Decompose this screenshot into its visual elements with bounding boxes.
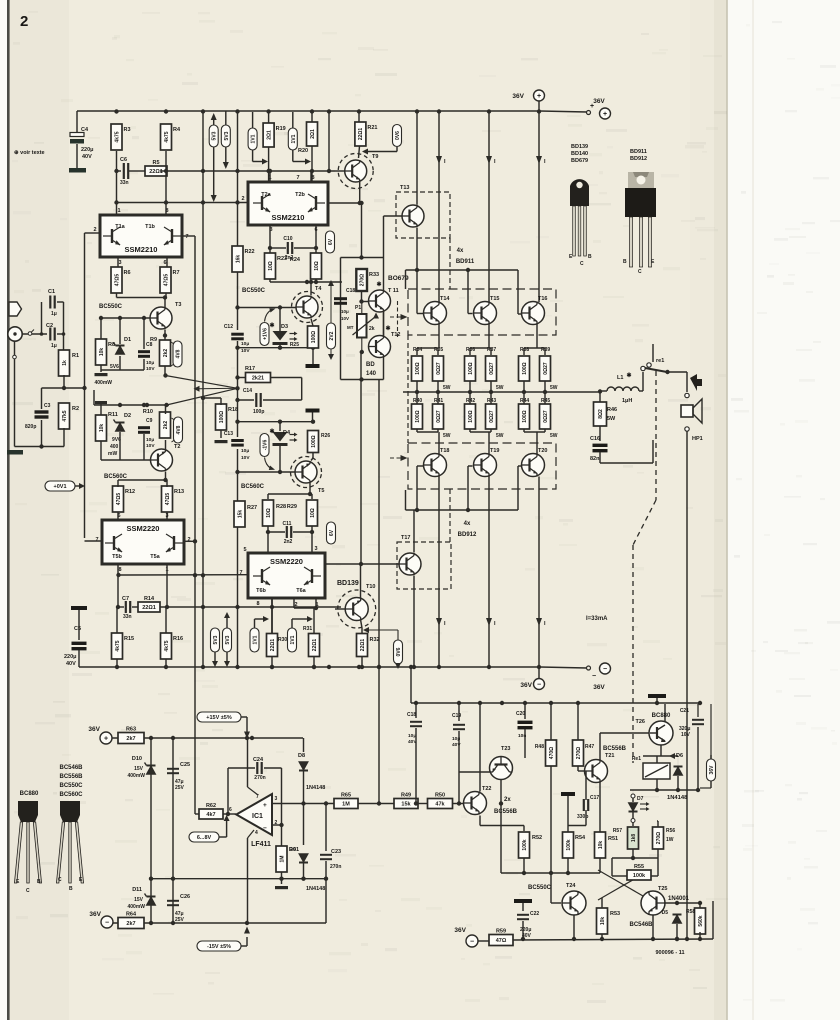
svg-text:R20: R20 xyxy=(298,148,308,154)
svg-text:IC1: IC1 xyxy=(252,813,263,820)
svg-text:4: 4 xyxy=(255,830,258,836)
svg-text:R54: R54 xyxy=(575,835,586,841)
svg-text:−: − xyxy=(592,673,596,680)
svg-text:R11: R11 xyxy=(108,412,118,418)
svg-text:R33: R33 xyxy=(369,272,379,278)
svg-text:4V8: 4V8 xyxy=(176,425,182,434)
svg-text:R53: R53 xyxy=(610,911,620,917)
svg-text:BC546B: BC546B xyxy=(59,765,83,771)
svg-text:MT: MT xyxy=(347,325,354,330)
svg-text:36V: 36V xyxy=(593,98,605,105)
svg-text:BD139: BD139 xyxy=(571,144,588,150)
svg-text:3: 3 xyxy=(275,796,278,802)
svg-text:6V: 6V xyxy=(328,238,334,245)
svg-text:R40: R40 xyxy=(413,398,422,404)
svg-text:1V1: 1V1 xyxy=(251,134,257,143)
svg-text:R21: R21 xyxy=(367,125,377,131)
svg-text:R46: R46 xyxy=(607,407,617,413)
svg-text:T25: T25 xyxy=(658,886,667,892)
svg-text:6V: 6V xyxy=(329,529,335,536)
svg-text:R45: R45 xyxy=(541,398,550,404)
svg-text:1V1: 1V1 xyxy=(290,635,296,644)
svg-text:10k: 10k xyxy=(598,841,604,850)
svg-text:5W: 5W xyxy=(550,433,558,439)
svg-text:R44: R44 xyxy=(520,398,529,404)
svg-text:100Ω: 100Ω xyxy=(415,362,421,374)
svg-text:100Ω: 100Ω xyxy=(219,411,225,423)
svg-text:R64: R64 xyxy=(126,912,137,918)
svg-text:1N4148: 1N4148 xyxy=(667,795,688,801)
svg-text:+: + xyxy=(537,93,541,100)
svg-text:C10: C10 xyxy=(283,236,292,242)
svg-text:C22: C22 xyxy=(530,911,539,917)
svg-text:2Ω1: 2Ω1 xyxy=(266,130,272,140)
svg-text:+: + xyxy=(603,111,607,118)
svg-text:2: 2 xyxy=(187,537,190,543)
svg-text:270n: 270n xyxy=(254,775,265,781)
svg-text:C24: C24 xyxy=(253,757,264,763)
svg-text:5W: 5W xyxy=(550,385,558,391)
svg-text:1V1: 1V1 xyxy=(291,134,297,143)
svg-text:47Ω5: 47Ω5 xyxy=(116,493,122,506)
svg-text:10V: 10V xyxy=(146,366,155,372)
svg-text:D8: D8 xyxy=(298,753,305,759)
svg-text:R63: R63 xyxy=(126,727,136,733)
svg-text:10μ: 10μ xyxy=(341,309,349,314)
svg-text:36V: 36V xyxy=(88,726,100,733)
svg-text:R25: R25 xyxy=(290,342,299,348)
svg-text:10V: 10V xyxy=(681,732,691,738)
svg-text:0V6: 0V6 xyxy=(396,647,402,656)
svg-text:C17: C17 xyxy=(590,795,599,801)
svg-text:R6: R6 xyxy=(124,270,131,276)
svg-text:HP1: HP1 xyxy=(692,436,703,442)
svg-text:1W: 1W xyxy=(666,837,674,843)
svg-text:7: 7 xyxy=(296,175,299,181)
svg-text:270Ω: 270Ω xyxy=(576,747,582,759)
svg-text:R9: R9 xyxy=(150,337,157,343)
svg-text:R49: R49 xyxy=(401,793,411,799)
svg-text:1μ: 1μ xyxy=(51,311,57,317)
svg-text:B: B xyxy=(623,259,627,265)
svg-text:R3: R3 xyxy=(124,127,131,133)
svg-text:C12: C12 xyxy=(224,324,233,330)
svg-text:36V: 36V xyxy=(512,93,524,100)
svg-text:+: + xyxy=(263,802,267,809)
svg-text:L1: L1 xyxy=(617,375,623,381)
svg-text:900096 - 11: 900096 - 11 xyxy=(655,950,684,956)
svg-text:40V: 40V xyxy=(82,154,92,160)
svg-text:+: + xyxy=(104,735,108,742)
svg-text:R52: R52 xyxy=(532,835,542,841)
svg-text:BD679: BD679 xyxy=(571,158,588,164)
svg-text:T24: T24 xyxy=(566,883,576,889)
svg-text:R41: R41 xyxy=(434,398,443,404)
svg-text:4x: 4x xyxy=(457,248,464,254)
svg-text:T19: T19 xyxy=(490,448,499,454)
svg-text:2: 2 xyxy=(93,227,96,233)
svg-text:3: 3 xyxy=(314,546,317,552)
svg-text:T2a: T2a xyxy=(261,192,271,198)
svg-text:10V: 10V xyxy=(241,455,250,461)
svg-text:R56: R56 xyxy=(666,828,675,834)
svg-text:400mW: 400mW xyxy=(94,380,112,386)
svg-text:6: 6 xyxy=(163,260,166,266)
svg-text:R30: R30 xyxy=(278,637,287,643)
svg-text:BC880: BC880 xyxy=(20,791,39,797)
svg-text:6: 6 xyxy=(117,513,120,519)
svg-text:T22: T22 xyxy=(482,786,491,792)
svg-text:140: 140 xyxy=(366,371,377,377)
svg-text:Re1: Re1 xyxy=(632,756,641,762)
svg-text:mW: mW xyxy=(108,451,117,457)
svg-text:R4: R4 xyxy=(173,127,181,133)
svg-text:4k75: 4k75 xyxy=(164,640,170,651)
svg-text:100Ω: 100Ω xyxy=(522,362,528,374)
svg-text:BC550C: BC550C xyxy=(99,304,123,310)
svg-text:10V: 10V xyxy=(341,316,349,321)
svg-text:100k: 100k xyxy=(633,873,646,879)
svg-text:22Ω1: 22Ω1 xyxy=(270,639,276,652)
svg-text:0Ω27: 0Ω27 xyxy=(543,410,549,423)
svg-text:BD139: BD139 xyxy=(337,580,359,587)
svg-text:B: B xyxy=(588,254,592,260)
svg-text:D3: D3 xyxy=(281,324,288,330)
svg-text:5W: 5W xyxy=(607,416,616,422)
svg-text:220μ: 220μ xyxy=(64,654,77,660)
svg-text:R14: R14 xyxy=(144,596,155,602)
svg-text:R15: R15 xyxy=(124,636,134,642)
svg-text:47Ω5: 47Ω5 xyxy=(165,493,171,506)
svg-text:T2b: T2b xyxy=(295,192,305,198)
svg-text:1M: 1M xyxy=(342,802,350,808)
svg-text:4k75: 4k75 xyxy=(114,131,120,142)
svg-text:C21: C21 xyxy=(680,708,689,714)
svg-text:10μ: 10μ xyxy=(241,448,249,454)
svg-text:C23: C23 xyxy=(331,849,341,855)
svg-text:T6b: T6b xyxy=(256,588,266,594)
svg-text:R26: R26 xyxy=(321,433,330,439)
svg-text:10μ: 10μ xyxy=(241,341,249,347)
svg-text:C16: C16 xyxy=(590,436,600,442)
svg-text:D7: D7 xyxy=(637,796,644,802)
svg-text:BD: BD xyxy=(366,362,375,368)
svg-text:T14: T14 xyxy=(440,296,450,302)
svg-text:R59: R59 xyxy=(496,929,506,935)
svg-text:47k: 47k xyxy=(435,802,445,808)
svg-text:47k5: 47k5 xyxy=(62,410,68,421)
svg-text:C20: C20 xyxy=(516,711,525,717)
svg-text:✱: ✱ xyxy=(385,325,390,332)
svg-text:2k21: 2k21 xyxy=(252,376,264,382)
svg-text:8: 8 xyxy=(118,567,121,573)
svg-text:6...8V: 6...8V xyxy=(197,835,212,841)
svg-text:D6: D6 xyxy=(676,753,683,759)
svg-text:100p: 100p xyxy=(253,409,264,415)
svg-text:0Ω27: 0Ω27 xyxy=(489,362,495,375)
svg-text:0Ω27: 0Ω27 xyxy=(543,362,549,375)
svg-text:R61: R61 xyxy=(289,847,299,853)
svg-text:560k: 560k xyxy=(698,915,704,926)
svg-text:T5a: T5a xyxy=(150,554,160,560)
svg-text:BD911: BD911 xyxy=(630,149,647,155)
svg-text:I=33mA: I=33mA xyxy=(586,616,608,622)
svg-text:SSM2210: SSM2210 xyxy=(272,213,305,222)
svg-text:40V: 40V xyxy=(66,661,76,667)
svg-text:5V3: 5V3 xyxy=(213,635,219,644)
svg-text:T15: T15 xyxy=(490,296,499,302)
svg-text:22Ω1: 22Ω1 xyxy=(358,128,364,141)
svg-text:36V: 36V xyxy=(454,927,466,934)
svg-text:3: 3 xyxy=(165,513,168,519)
svg-text:T12: T12 xyxy=(391,332,400,338)
svg-text:−: − xyxy=(537,681,541,688)
svg-text:8: 8 xyxy=(256,601,259,607)
svg-text:T21: T21 xyxy=(605,753,614,759)
svg-text:2k7: 2k7 xyxy=(126,921,135,927)
svg-text:R28: R28 xyxy=(276,504,286,510)
svg-text:4k75: 4k75 xyxy=(164,131,170,142)
svg-text:R24: R24 xyxy=(290,257,301,263)
svg-text:3: 3 xyxy=(118,260,121,266)
svg-text:-15V ±5%: -15V ±5% xyxy=(207,944,231,950)
svg-text:220μ: 220μ xyxy=(81,147,94,153)
svg-text:C3: C3 xyxy=(44,403,51,409)
svg-text:1M: 1M xyxy=(279,856,285,863)
svg-text:100Ω: 100Ω xyxy=(311,435,317,447)
svg-text:R2: R2 xyxy=(72,406,79,412)
svg-text:R31: R31 xyxy=(303,626,312,632)
svg-text:C6: C6 xyxy=(120,157,127,163)
svg-text:R27: R27 xyxy=(247,505,257,511)
svg-text:2k2: 2k2 xyxy=(163,421,169,430)
svg-text:LF411: LF411 xyxy=(251,841,271,848)
svg-text:1N4148: 1N4148 xyxy=(306,785,325,791)
svg-text:5V3: 5V3 xyxy=(212,131,218,140)
svg-text:R51: R51 xyxy=(608,836,618,842)
svg-text:1k8: 1k8 xyxy=(631,834,637,843)
svg-text:BD140: BD140 xyxy=(571,151,588,157)
svg-text:1N4148: 1N4148 xyxy=(306,886,325,892)
svg-text:R43: R43 xyxy=(487,398,496,404)
svg-text:10Ω: 10Ω xyxy=(266,508,272,518)
svg-text:T20: T20 xyxy=(538,448,547,454)
svg-text:BC556B: BC556B xyxy=(603,746,627,752)
svg-text:4k7: 4k7 xyxy=(206,812,215,818)
svg-text:BC560C: BC560C xyxy=(59,792,83,798)
svg-text:C13: C13 xyxy=(224,431,233,437)
svg-text:R17: R17 xyxy=(245,366,255,372)
svg-text:D10: D10 xyxy=(132,756,142,762)
svg-text:5V3: 5V3 xyxy=(224,131,230,140)
svg-text:7: 7 xyxy=(95,537,98,543)
svg-text:T1b: T1b xyxy=(145,224,155,230)
svg-text:D11: D11 xyxy=(132,887,142,893)
svg-text:15V: 15V xyxy=(134,766,144,772)
svg-text:✱: ✱ xyxy=(269,322,274,329)
svg-text:0Ω27: 0Ω27 xyxy=(489,410,495,423)
svg-text:15k: 15k xyxy=(237,510,243,519)
svg-text:C11: C11 xyxy=(283,521,292,527)
svg-text:C: C xyxy=(638,269,642,275)
svg-text:270Ω: 270Ω xyxy=(656,832,662,844)
svg-text:33n: 33n xyxy=(120,180,129,186)
svg-text:1μH: 1μH xyxy=(622,398,632,404)
svg-text:T9: T9 xyxy=(372,154,378,160)
svg-text:2Ω1: 2Ω1 xyxy=(310,129,316,139)
svg-text:10Ω: 10Ω xyxy=(314,261,320,271)
svg-text:C18: C18 xyxy=(407,712,416,718)
svg-text:0Ω27: 0Ω27 xyxy=(436,410,442,423)
svg-text:100Ω: 100Ω xyxy=(311,331,317,343)
svg-text:R47: R47 xyxy=(585,744,594,750)
svg-text:C1: C1 xyxy=(48,289,55,295)
svg-text:R48: R48 xyxy=(535,744,544,750)
svg-text:10μ: 10μ xyxy=(146,437,154,443)
svg-text:R50: R50 xyxy=(435,793,445,799)
svg-text:R57: R57 xyxy=(613,828,622,834)
svg-text:D1: D1 xyxy=(124,337,131,343)
svg-text:4V8: 4V8 xyxy=(176,349,182,358)
svg-text:C: C xyxy=(26,888,30,894)
svg-text:5W: 5W xyxy=(496,433,504,439)
svg-text:T4: T4 xyxy=(315,286,322,292)
svg-text:36V: 36V xyxy=(89,911,101,918)
svg-text:10k: 10k xyxy=(99,348,105,357)
svg-text:400mW: 400mW xyxy=(127,904,145,910)
svg-text:100Ω: 100Ω xyxy=(468,410,474,422)
svg-text:400: 400 xyxy=(110,444,119,450)
svg-text:T 11: T 11 xyxy=(388,288,399,294)
svg-text:P1: P1 xyxy=(355,305,361,311)
svg-text:C19: C19 xyxy=(452,713,461,719)
svg-text:2V2: 2V2 xyxy=(329,331,335,340)
svg-text:R1: R1 xyxy=(72,353,79,359)
svg-text:4k75: 4k75 xyxy=(115,640,121,651)
svg-text:R58: R58 xyxy=(686,909,695,915)
svg-text:4x: 4x xyxy=(464,521,471,527)
svg-text:D5: D5 xyxy=(662,910,669,916)
svg-text:T16: T16 xyxy=(538,296,547,302)
svg-text:1N4001: 1N4001 xyxy=(668,896,690,902)
svg-text:2k2: 2k2 xyxy=(163,349,169,358)
svg-text:C26: C26 xyxy=(180,894,190,900)
svg-text:2k: 2k xyxy=(369,326,375,332)
svg-text:25V: 25V xyxy=(175,785,185,791)
svg-text:✱: ✱ xyxy=(376,281,381,288)
svg-text:100k: 100k xyxy=(522,839,528,850)
svg-text:22Ω1: 22Ω1 xyxy=(360,639,366,652)
svg-text:R16: R16 xyxy=(173,636,183,642)
svg-text:T13: T13 xyxy=(400,185,409,191)
svg-text:BC550C: BC550C xyxy=(528,885,552,891)
svg-text:T3: T3 xyxy=(175,302,181,308)
svg-text:36V: 36V xyxy=(709,765,715,775)
svg-text:10μ: 10μ xyxy=(146,360,154,366)
svg-text:R12: R12 xyxy=(125,489,135,495)
svg-text:−: − xyxy=(603,666,607,673)
svg-text:1V1: 1V1 xyxy=(253,635,259,644)
svg-text:✱: ✱ xyxy=(626,372,631,379)
svg-text:R22: R22 xyxy=(245,249,255,255)
svg-text:22Ω1: 22Ω1 xyxy=(149,169,163,175)
svg-text:R18: R18 xyxy=(228,407,238,413)
svg-text:BD912: BD912 xyxy=(458,532,477,538)
svg-text:2n2: 2n2 xyxy=(284,539,293,545)
svg-text:BD912: BD912 xyxy=(630,156,647,162)
svg-text:82n: 82n xyxy=(590,456,600,462)
svg-text:T10: T10 xyxy=(366,584,375,590)
svg-text:−: − xyxy=(470,938,474,945)
svg-text:BD911: BD911 xyxy=(456,259,475,265)
svg-text:5V3: 5V3 xyxy=(225,635,231,644)
svg-text:1k: 1k xyxy=(62,360,68,366)
svg-text:SSM2220: SSM2220 xyxy=(270,557,303,566)
svg-text:8Ω2: 8Ω2 xyxy=(598,409,604,419)
svg-text:36V: 36V xyxy=(520,682,532,689)
svg-text:BC546B: BC546B xyxy=(629,922,653,928)
svg-text:T2: T2 xyxy=(174,444,180,450)
svg-text:D4: D4 xyxy=(283,430,291,436)
svg-text:270n: 270n xyxy=(330,864,341,870)
svg-text:16k: 16k xyxy=(235,255,241,264)
svg-text:B: B xyxy=(69,886,73,892)
svg-text:400mW: 400mW xyxy=(127,773,145,779)
svg-text:D2: D2 xyxy=(124,413,131,419)
svg-text:C: C xyxy=(58,877,62,883)
svg-text:R10: R10 xyxy=(143,409,153,415)
svg-text:22Ω1: 22Ω1 xyxy=(312,639,318,652)
svg-text:10k: 10k xyxy=(600,917,606,926)
svg-text:5V6: 5V6 xyxy=(110,364,119,370)
svg-text:T26: T26 xyxy=(636,719,645,725)
svg-text:2: 2 xyxy=(241,196,244,202)
svg-text:7: 7 xyxy=(185,234,188,240)
svg-text:+15V ±5%: +15V ±5% xyxy=(206,715,232,721)
svg-text:10μ: 10μ xyxy=(408,733,416,739)
svg-text:470Ω: 470Ω xyxy=(549,747,555,759)
svg-text:R32: R32 xyxy=(370,637,380,643)
svg-text:5W: 5W xyxy=(443,433,451,439)
svg-text:R13: R13 xyxy=(174,489,184,495)
svg-text:BC556B: BC556B xyxy=(494,809,518,815)
svg-text:BC560C: BC560C xyxy=(241,484,265,490)
svg-text:100Ω: 100Ω xyxy=(468,362,474,374)
svg-text:40V: 40V xyxy=(452,742,461,748)
svg-text:33n: 33n xyxy=(123,614,132,620)
svg-text:2: 2 xyxy=(20,13,28,30)
svg-text:T17: T17 xyxy=(401,535,410,541)
svg-text:15V: 15V xyxy=(134,897,144,903)
svg-text:22Ω1: 22Ω1 xyxy=(142,605,156,611)
svg-text:R23: R23 xyxy=(277,256,287,262)
svg-text:SSM2220: SSM2220 xyxy=(127,524,160,533)
svg-text:T5b: T5b xyxy=(112,554,122,560)
svg-text:0V6: 0V6 xyxy=(395,131,401,140)
svg-text:0Ω27: 0Ω27 xyxy=(436,362,442,375)
svg-text:+1V6: +1V6 xyxy=(263,328,269,340)
svg-text:R29: R29 xyxy=(287,504,297,510)
svg-text:T18: T18 xyxy=(440,448,449,454)
svg-text:⊕ voir texte: ⊕ voir texte xyxy=(14,150,45,156)
svg-text:re1: re1 xyxy=(656,358,664,364)
svg-text:10V: 10V xyxy=(146,443,155,449)
svg-text:47Ω5: 47Ω5 xyxy=(163,274,169,287)
svg-text:−: − xyxy=(105,919,109,926)
svg-text:10k: 10k xyxy=(99,424,105,433)
svg-text:C9: C9 xyxy=(146,418,153,424)
svg-text:10V: 10V xyxy=(241,348,250,354)
